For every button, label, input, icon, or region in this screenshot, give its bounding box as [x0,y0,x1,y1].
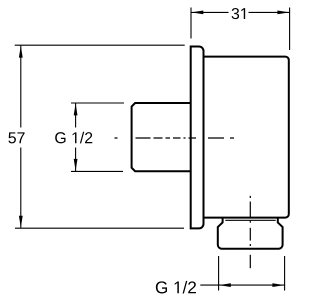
flange (wall plate) [191,47,204,229]
dim 57: dimension line [20,46,22,128]
bottom outlet nipple [218,218,283,249]
dim G1/2 bottom: left arrow [219,283,231,287]
dim 31: left extension line [190,8,192,39]
dim G1/2 bottom: right arrow [272,283,284,287]
dim 57: bottom arrow [19,216,23,228]
dim G1/2 rear: bottom extension line [71,170,123,172]
dim 31: text [232,8,246,19]
dim G1/2 bottom: left extension line [218,256,220,291]
nipple chamfer edge line [225,219,275,221]
body (cylinder side view) [204,57,289,218]
dim G1/2 bottom: text [156,281,196,294]
dim 57: top extension line [15,44,185,46]
dim G1/2 rear: bottom arrow [74,159,78,171]
dim 57: text [8,132,24,143]
vertical centerline [249,196,251,268]
dim 31: right arrow [277,11,289,15]
dim G1/2 bottom: dimension line [200,284,284,286]
dim G1/2 rear: text [55,132,92,144]
horizontal centerline [115,137,235,139]
dim G1/2 rear: top arrow [74,103,78,115]
rear inlet section (into wall) [132,103,191,171]
dim G1/2 rear: dimension line [75,103,77,127]
dim G1/2 bottom: right extension line [284,256,286,291]
dim 31: dimension line [191,11,228,13]
dim 31: right extension line [289,8,291,51]
dim G1/2 rear: top extension line [71,102,124,104]
dim 31: left arrow [191,11,203,15]
dim 57: top arrow [19,46,23,58]
dim 57: bottom extension line [15,227,184,229]
